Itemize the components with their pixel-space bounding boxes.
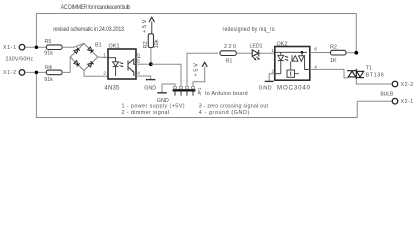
node R2/pin5 junction	[149, 62, 153, 66]
wire triac MT1 to X2-2	[356, 79, 392, 84]
svg-text:230V/50Hz: 230V/50Hz	[6, 57, 34, 63]
wire X1-1 to R5	[25, 46, 46, 48]
LED inside OK1	[108, 58, 122, 76]
svg-text:X1-2: X1-2	[3, 70, 16, 76]
wire bridge right to OK1 pin1	[98, 56, 108, 59]
svg-text:4: 4	[137, 71, 140, 77]
svg-text:X1-1: X1-1	[3, 45, 16, 51]
diode B1 bottom-right	[88, 61, 94, 67]
triac T1	[347, 69, 364, 79]
node junction X1-2/neutral	[35, 71, 39, 75]
wire R5 to bridge top	[62, 43, 84, 47]
svg-text:T1: T1	[366, 66, 372, 72]
svg-text:4 - ground (GND): 4 - ground (GND)	[199, 110, 250, 116]
bridge rectifier B1	[70, 43, 98, 70]
svg-text:91k: 91k	[44, 77, 53, 83]
svg-text:R2: R2	[143, 41, 149, 48]
svg-text:revised schematic in 24.03.201: revised schematic in 24.03.2013	[53, 26, 124, 34]
svg-text:BT136: BT136	[366, 72, 384, 78]
ground GND3	[265, 80, 274, 82]
terminal X2-1	[392, 98, 398, 104]
svg-text:10k: 10k	[154, 39, 160, 48]
svg-text:91k: 91k	[44, 51, 53, 57]
diode B1 bottom-left	[74, 60, 80, 66]
LED inside OK2	[275, 52, 307, 73]
svg-text:2: 2	[272, 69, 275, 75]
svg-text:1 - power supply (+5V): 1 - power supply (+5V)	[122, 104, 185, 110]
svg-text:3 - zero crossing signal out: 3 - zero crossing signal out	[199, 104, 269, 110]
svg-text:GND: GND	[259, 85, 272, 91]
wire X2-1 to neutral	[357, 100, 392, 102]
svg-text:GND: GND	[144, 85, 156, 91]
svg-text:+5V: +5V	[194, 63, 200, 77]
svg-text:4: 4	[314, 64, 317, 70]
pin 5 OK1 wire	[136, 63, 151, 65]
header JP1	[173, 89, 196, 91]
wire zero-cross signal to header pin3	[151, 64, 181, 86]
svg-text:2 - dimmer signal: 2 - dimmer signal	[122, 110, 170, 116]
svg-text:redesigned by niq_ro: redesigned by niq_ro	[223, 26, 275, 33]
wire R4 to bridge left	[62, 57, 70, 72]
opto-triac OK2 box	[275, 47, 310, 81]
svg-text:1: 1	[271, 48, 274, 54]
svg-text:OK2: OK2	[277, 42, 288, 48]
svg-text:R1: R1	[226, 58, 233, 64]
wire bridge bottom to OK1 pin2	[84, 71, 108, 77]
diode B1 top-left	[74, 48, 80, 54]
node triac gate drive	[354, 51, 358, 55]
wire live top rail	[36, 14, 356, 54]
svg-text:JP1: JP1	[197, 87, 202, 95]
svg-text:1K: 1K	[330, 58, 337, 64]
svg-text:R5: R5	[45, 39, 52, 45]
svg-text:2: 2	[103, 70, 106, 76]
svg-text:4N35: 4N35	[104, 85, 120, 91]
svg-text:R2: R2	[330, 44, 337, 50]
ground GND2	[157, 92, 167, 94]
phototriac inside OK2	[292, 52, 310, 69]
diode B1 top-right	[88, 47, 94, 53]
svg-text:1: 1	[103, 53, 106, 59]
wire header pin1 to +5V	[193, 66, 205, 86]
pin 4 OK1 wire to ground	[136, 76, 151, 79]
resistor R4	[46, 70, 62, 75]
svg-text:AC DIMMER for incandescent bul: AC DIMMER for incandescent bulb	[61, 3, 131, 11]
resistor R2 10k vertical	[148, 34, 153, 48]
svg-text:LED1: LED1	[250, 44, 263, 50]
wire R3 to triac node	[346, 52, 356, 54]
svg-text:B1: B1	[95, 43, 102, 49]
svg-text:220: 220	[224, 44, 236, 50]
optocoupler OK1 box	[108, 49, 136, 79]
zero-cross detector inside OK2	[287, 70, 295, 77]
wire OK2 pin4 to triac gate	[310, 69, 348, 78]
terminal X2-2	[392, 81, 398, 87]
wire LED1 to OK2 pin1	[259, 52, 275, 54]
node OK2 internal	[301, 51, 304, 54]
pin 6 OK1 stub	[136, 57, 141, 59]
svg-text:to Arduino board: to Arduino board	[205, 91, 248, 97]
phototransistor inside OK1	[128, 59, 136, 76]
node junction X1-1/live	[35, 45, 39, 49]
wire header pin4 to ground	[162, 84, 175, 93]
svg-text:OK1: OK1	[109, 43, 120, 49]
svg-text:6: 6	[314, 47, 317, 53]
wire header pin2 dimmer signal	[187, 53, 218, 86]
svg-text:R4: R4	[45, 65, 52, 71]
svg-text:MOC3040: MOC3040	[277, 84, 311, 91]
wire R1 to LED1	[236, 52, 252, 54]
wire OK2 pin6 to R3	[310, 52, 331, 54]
wire X1-2 to R4	[25, 71, 46, 73]
svg-text:+5V: +5V	[142, 19, 148, 33]
wire R2 bottom	[150, 48, 152, 65]
wire OK2 pin2 to ground	[269, 74, 275, 81]
power +5V arrow 2	[202, 62, 207, 67]
LED1 emission arrows	[253, 57, 259, 61]
svg-text:X2-1: X2-1	[401, 99, 414, 105]
power +5V arrow 1	[149, 17, 154, 34]
resistor R5	[46, 45, 62, 50]
ground GND1	[146, 79, 156, 81]
svg-text:5: 5	[137, 58, 140, 64]
resistor R3 1K	[331, 50, 347, 55]
svg-text:X2-2: X2-2	[401, 82, 414, 88]
svg-text:6: 6	[137, 52, 140, 58]
svg-text:BULB: BULB	[380, 91, 394, 97]
resistor R1 220	[220, 51, 236, 56]
wire neutral bottom rail	[36, 72, 357, 117]
